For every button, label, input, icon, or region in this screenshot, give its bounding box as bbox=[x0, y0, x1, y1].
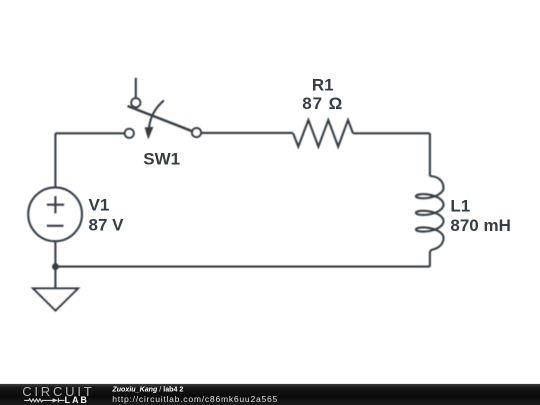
svg-text:V1: V1 bbox=[89, 196, 110, 215]
V1 minus mark bbox=[47, 225, 64, 227]
svg-text:Zuoxiu_Kang / lab4 2: Zuoxiu_Kang / lab4 2 bbox=[111, 386, 183, 394]
node junction at V1/ground/bottom net bbox=[52, 263, 59, 270]
logo wire to LAB bbox=[59, 399, 65, 401]
svg-text:LAB: LAB bbox=[65, 395, 89, 405]
wire top-left horizontal bbox=[55, 132, 124, 134]
svg-text:870 mH: 870 mH bbox=[450, 216, 510, 235]
switch SW1 bbox=[125, 78, 201, 140]
V1 plus mark bbox=[47, 196, 64, 213]
SW1 actuation arrow arc bbox=[149, 100, 164, 127]
SW1 left terminal bbox=[125, 129, 134, 138]
svg-text:L1: L1 bbox=[450, 197, 470, 216]
logo diode cathode bar bbox=[57, 398, 59, 402]
SW1 blade bbox=[128, 106, 193, 131]
SW1 arrowhead bbox=[145, 127, 154, 140]
svg-text:http://circuitlab.com/c86mk6uu: http://circuitlab.com/c86mk6uu2a565 bbox=[112, 394, 278, 404]
SW1 top throw terminal bbox=[131, 98, 140, 107]
wire switch to resistor bbox=[201, 132, 293, 134]
wire right vertical bbox=[429, 133, 431, 176]
logo wire and resistor zigzag bbox=[24, 399, 52, 402]
footer bar bbox=[0, 384, 540, 405]
resistor R1 bbox=[293, 120, 353, 147]
svg-text:SW1: SW1 bbox=[143, 149, 180, 168]
svg-text:87 V: 87 V bbox=[89, 215, 125, 234]
ground bbox=[33, 288, 78, 310]
logo schematic squiggle bbox=[24, 398, 64, 402]
wire left vertical bbox=[54, 133, 56, 187]
logo diode triangle bbox=[53, 398, 58, 402]
voltage source V1 body bbox=[28, 187, 82, 241]
wire bottom horizontal net bbox=[55, 266, 430, 268]
SW1 right terminal bbox=[192, 128, 201, 137]
wire resistor to corner bbox=[353, 132, 430, 134]
SW1 top throw lead bbox=[135, 78, 137, 98]
wire V1 bottom lead bbox=[54, 241, 56, 266]
wire ground stub bbox=[54, 267, 56, 289]
svg-text:R1: R1 bbox=[312, 76, 334, 95]
svg-text:87 Ω: 87 Ω bbox=[302, 94, 343, 113]
inductor L1 bbox=[416, 176, 444, 267]
